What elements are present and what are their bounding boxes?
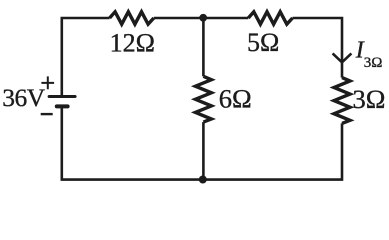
svg-text:12Ω: 12Ω	[110, 28, 155, 57]
current arrow I3Ω (chevron head on right branch wire)	[333, 53, 352, 62]
wire: R1 to node A	[154, 17, 203, 20]
wire: R2 to top-right corner and down to R3	[293, 18, 343, 78]
svg-text:3Ω: 3Ω	[364, 55, 383, 71]
wire: R3 down to bottom-right corner and left to node B	[203, 123, 342, 179]
wire: R4 down to node B	[202, 122, 205, 180]
resistor R2 5Ω (zigzag)	[248, 12, 292, 24]
svg-text:5Ω: 5Ω	[247, 28, 279, 57]
battery V1 36V negative plate (short)	[57, 104, 68, 108]
wire: node A down to R4	[202, 18, 205, 77]
resistor R3 3Ω (vertical zigzag)	[334, 78, 350, 124]
battery V1 36V positive plate (long)	[49, 95, 75, 98]
resistor R1 12Ω (zigzag)	[110, 12, 154, 24]
resistor R4 6Ω (vertical zigzag)	[195, 76, 211, 122]
battery polarity plus sign	[41, 76, 54, 89]
node A (top junction dot)	[199, 14, 207, 22]
svg-text:36V: 36V	[2, 83, 46, 112]
svg-text:6Ω: 6Ω	[219, 84, 252, 114]
battery polarity minus sign	[41, 113, 53, 115]
svg-text:3Ω: 3Ω	[353, 84, 386, 114]
wire: battery positive terminal up to top-left corner and right to R1	[62, 18, 110, 96]
wire: node A to R2	[203, 17, 248, 20]
node B (bottom junction dot)	[199, 176, 207, 184]
wire: bottom rail node B to battery negative terminal	[62, 106, 203, 179]
